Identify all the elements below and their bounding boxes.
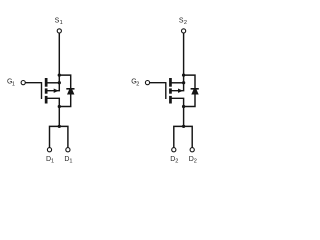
terminal D2 (right) (190, 148, 194, 152)
label D2 (left) (170, 156, 178, 165)
label G2 (131, 79, 139, 88)
svg-text:1: 1 (60, 20, 63, 26)
label D2 (right) (189, 156, 197, 165)
wire gate lead G2 (150, 82, 166, 84)
label S2 (179, 18, 187, 27)
node source-lead junction (182, 81, 185, 84)
wire drain lead with down-turn (46, 98, 59, 126)
terminal S1 (57, 29, 61, 33)
wire source lead (top channel contact) (46, 82, 59, 84)
terminal D2 (left) (172, 148, 176, 152)
wire gate lead G1 (25, 82, 41, 84)
diode D1 body (anode triangle) (67, 89, 74, 94)
node drain-split junction (58, 125, 61, 128)
channel bar segment (top) (45, 78, 48, 87)
diode D2 body (anode triangle) (191, 89, 198, 94)
arrow body (points right, N-body of P-channel) (178, 89, 183, 93)
svg-text:1: 1 (12, 82, 15, 88)
node diode-bottom junction (58, 105, 61, 108)
label D1 (right) (64, 156, 72, 165)
gate plate G1 (41, 82, 43, 99)
terminal G2 (145, 81, 149, 85)
node diode-bottom junction (182, 105, 185, 108)
transistor Q1 (left P-channel MOSFET) (7, 18, 75, 165)
diode D1 body (cathode bar) (66, 88, 74, 90)
channel bar segment (middle) (169, 88, 172, 93)
wire body-diode branch (184, 75, 195, 106)
svg-text:2: 2 (136, 82, 139, 88)
wire S1 to drain-source spine (58, 33, 60, 83)
svg-text:2: 2 (194, 158, 197, 164)
label D1 (left) (46, 156, 54, 165)
gate plate G2 (165, 82, 167, 99)
channel bar segment (bottom) (169, 96, 172, 104)
terminal D1 (right) (66, 148, 70, 152)
terminal G1 (21, 81, 25, 85)
wire S2 to drain-source spine (183, 33, 185, 83)
diode D2 body (cathode bar) (191, 88, 199, 90)
node diode-top junction (182, 73, 185, 76)
channel bar segment (top) (169, 78, 172, 87)
terminal S2 (182, 29, 186, 33)
wire source lead (top channel contact) (171, 82, 184, 84)
svg-text:1: 1 (69, 158, 72, 164)
arrow body (points right, N-body of P-channel) (54, 89, 59, 93)
wire body lead with up-turn (171, 83, 184, 91)
wire body-diode branch (59, 75, 70, 106)
channel bar segment (middle) (45, 88, 48, 93)
node source-lead junction (58, 81, 61, 84)
channel bar segment (bottom) (45, 96, 48, 104)
transistor Q2 (right P-channel MOSFET) (131, 18, 199, 165)
wire drain lead with down-turn (171, 98, 184, 126)
wire drain split to two D1 pins (50, 126, 68, 147)
svg-text:2: 2 (175, 158, 178, 164)
node diode-top junction (58, 73, 61, 76)
terminal D1 (left) (47, 148, 51, 152)
svg-text:1: 1 (51, 158, 54, 164)
node drain-split junction (182, 125, 185, 128)
wire body lead with up-turn (46, 83, 59, 91)
label G1 (7, 79, 15, 88)
label S1 (55, 18, 63, 27)
svg-text:2: 2 (184, 20, 187, 26)
wire drain split to two D2 pins (174, 126, 192, 147)
